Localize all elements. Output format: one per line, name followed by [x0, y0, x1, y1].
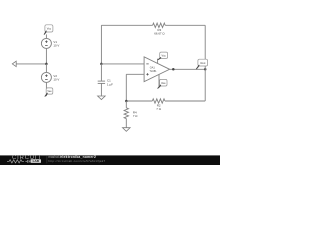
label V2 10 V: [53, 74, 59, 82]
svg-text:1 µF: 1 µF: [107, 82, 113, 86]
wire capacitor to ground: [100, 83, 102, 96]
op-amp OA1 TL081: [144, 57, 170, 82]
label C1 1uF: [107, 79, 113, 87]
ground (left, rotated): [12, 61, 16, 66]
wire R4 bottom lead: [125, 119, 127, 128]
label R3 66.67 ohm: [154, 28, 165, 36]
net flag Vout: [196, 59, 207, 69]
wire op-amp noninverting input: [126, 73, 144, 75]
wire R4 top lead: [125, 101, 127, 108]
svg-text:LAB: LAB: [33, 159, 40, 163]
wire top left segment: [101, 24, 152, 26]
ground under R4: [123, 128, 131, 132]
watermark logo CIRCUIT: [12, 155, 41, 161]
svg-text:Vee: Vee: [47, 90, 52, 93]
watermark title text: [48, 155, 105, 163]
net flag Vcc (op-amp positive supply): [158, 52, 168, 60]
svg-text:10 V: 10 V: [53, 78, 59, 82]
watermark logo LAB box: [31, 159, 42, 163]
svg-text:7 Ω: 7 Ω: [133, 114, 138, 118]
label R2 7 ohm: [156, 104, 161, 112]
svg-text:Vee: Vee: [161, 81, 166, 85]
op-amp top power pin: [157, 59, 159, 64]
resistor R4: [124, 108, 128, 119]
label R4 7 ohm: [133, 110, 138, 118]
svg-text:Vcc: Vcc: [162, 54, 167, 58]
svg-text:10 V: 10 V: [53, 44, 59, 48]
wire op-amp output: [170, 68, 206, 70]
wire left vertical (R3 to node): [100, 25, 102, 64]
label V1 10 V: [53, 40, 59, 48]
node junction R4 top: [125, 100, 128, 103]
wire node to op-amp inverting input: [101, 63, 144, 65]
watermark separator: [46, 156, 48, 164]
wire node to left ground: [16, 63, 46, 65]
node junction output right: [204, 68, 207, 71]
net flag Vee (below V2): [45, 88, 53, 96]
capacitor C1: [98, 81, 105, 83]
svg-text:http://circuitlab.com/c/e57a6z: http://circuitlab.com/c/e57a6zdfjak7: [48, 159, 105, 163]
node junction output: [172, 68, 175, 71]
voltage source V1: [41, 38, 51, 48]
watermark logo resistor squiggle: [7, 160, 24, 163]
svg-text:TL081: TL081: [149, 70, 157, 73]
watermark bar: [0, 155, 220, 165]
net flag Vcc (top of V1): [44, 25, 53, 35]
ground under C1: [98, 96, 106, 100]
node junction V1/V2: [45, 63, 48, 66]
wire V2 bottom pin: [45, 82, 47, 96]
voltage source V2: [41, 72, 51, 82]
wire node to V2 top: [45, 64, 47, 73]
node junction inverting input: [100, 63, 103, 66]
watermark logo capacitor: [25, 160, 30, 163]
resistor R2: [152, 99, 165, 103]
wire noninverting down: [125, 74, 127, 101]
svg-text:Vcc: Vcc: [47, 27, 52, 31]
net flag Vee (op-amp negative supply): [158, 79, 167, 88]
svg-text:OA1: OA1: [150, 66, 156, 69]
wire V1 top pin: [45, 34, 47, 38]
wire top right segment: [165, 24, 205, 26]
svg-text:7 Ω: 7 Ω: [156, 107, 161, 111]
wire bottom left segment: [126, 100, 152, 102]
wire node down to capacitor: [100, 64, 102, 81]
wire bottom right segment: [165, 100, 205, 102]
svg-text:66.67 Ω: 66.67 Ω: [154, 32, 165, 36]
op-amp bottom power pin: [158, 75, 160, 88]
resistor R3: [153, 23, 166, 27]
wire V1 bottom to node: [45, 48, 47, 64]
wire right vertical: [204, 25, 206, 101]
svg-text:Vout: Vout: [200, 61, 206, 65]
